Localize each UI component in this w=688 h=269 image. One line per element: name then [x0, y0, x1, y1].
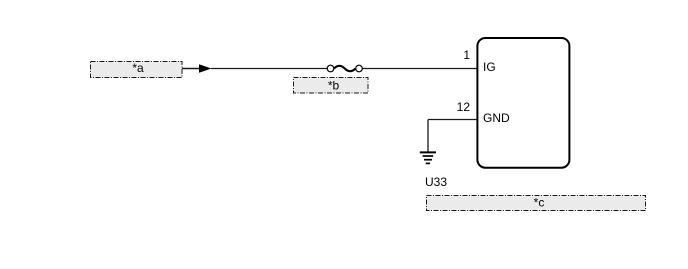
- svg-text:IG: IG: [483, 60, 496, 74]
- svg-text:12: 12: [457, 100, 471, 114]
- svg-text:GND: GND: [483, 111, 510, 125]
- svg-text:U33: U33: [425, 175, 447, 189]
- svg-text:1: 1: [463, 48, 470, 62]
- svg-text:*b: *b: [328, 79, 340, 93]
- svg-text:*a: *a: [132, 61, 144, 75]
- svg-text:*c: *c: [534, 195, 545, 209]
